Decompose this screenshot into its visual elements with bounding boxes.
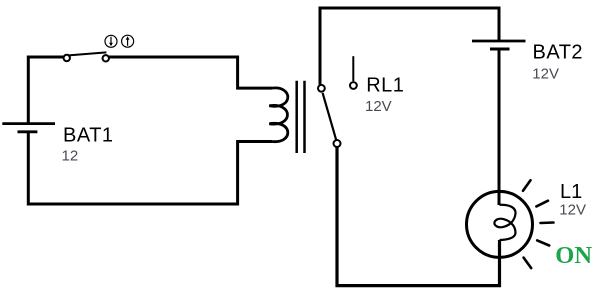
relay core line 1 [295, 81, 298, 153]
svg-text:ON: ON [555, 242, 592, 269]
switch lever [67, 52, 106, 55]
svg-text:BAT1: BAT1 [63, 124, 114, 146]
svg-text:RL1: RL1 [366, 74, 404, 96]
battery BAT1 long plate [2, 122, 55, 125]
lamp L1 bulb circle [467, 191, 533, 257]
switch up-arrow glyph [127, 39, 129, 46]
wire: left loop, battery top to switch [28, 57, 64, 123]
relay contact right stub [352, 56, 354, 81]
svg-text:12V: 12V [559, 202, 586, 219]
switch terminal right [103, 55, 109, 61]
switch up-arrow circle [122, 35, 134, 47]
lamp ray lower [524, 258, 532, 269]
wire: relay contact to top wire to BAT2 [320, 8, 499, 85]
lamp ray right [541, 221, 554, 224]
switch down-arrow circle [105, 35, 117, 47]
lamp ray upper-right [536, 201, 548, 207]
switch terminal left [64, 55, 70, 61]
lamp ray lower-right [537, 240, 549, 245]
wire: coil bottom stub, down, bottom wire, to battery minus [28, 133, 272, 205]
battery BAT2 short plate [490, 48, 510, 51]
relay contact pole terminal [334, 140, 341, 147]
svg-text:12V: 12V [365, 98, 392, 115]
switch down-arrow glyph [110, 37, 112, 44]
wire: switch to coil top stub [108, 57, 272, 88]
relay contact right terminal [350, 82, 357, 89]
wire: BAT2 down to lamp [498, 49, 501, 205]
battery BAT2 long plate [472, 40, 526, 43]
relay core line 2 [303, 81, 306, 153]
svg-text:L1: L1 [560, 181, 582, 203]
lamp ray upper [523, 180, 531, 191]
relay contact lever [323, 93, 337, 140]
svg-text:BAT2: BAT2 [533, 41, 584, 63]
relay coil RL1 [269, 88, 288, 142]
battery BAT1 short plate [18, 130, 38, 133]
svg-text:12: 12 [62, 147, 79, 164]
relay contact left terminal [318, 85, 325, 92]
wire: lamp bottom, bottom wire, up to relay pole [337, 147, 500, 286]
lamp L1 filament [494, 205, 515, 240]
svg-text:12V: 12V [532, 65, 559, 82]
